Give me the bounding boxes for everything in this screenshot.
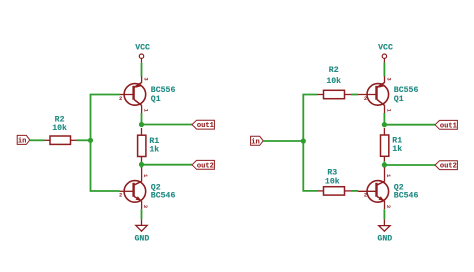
svg-text:GND: GND [135,235,150,244]
label BC556 Q1 (right) [394,86,419,104]
global label out1 (left) [192,120,214,130]
ground symbol GND (right) [377,219,392,243]
wire vertical rail down to Q2 base (left) [91,140,120,191]
label Q2 BC546 (right) [394,183,419,200]
svg-text:R2: R2 [55,116,65,125]
wire in label to junction (right) [263,140,303,142]
svg-text:10k: 10k [326,76,341,86]
wire Q2 emitter to GND (right) [383,209,385,219]
label Q2 BC546 (left) [151,183,176,200]
resistor R1 1k (left) [138,128,160,162]
svg-text:1: 1 [385,109,392,113]
svg-text:GND: GND [377,234,392,243]
junction node out2 (left) [139,162,144,167]
wire junction to out1 label (left) [142,124,193,126]
junction node out2 (right) [382,162,387,167]
wire out2 junction to Q2 collector (left) [141,165,143,169]
ground symbol GND (left) [135,219,150,243]
wire R2 to junction (left) [77,139,91,141]
svg-text:BC546: BC546 [394,191,419,200]
svg-text:Q1: Q1 [151,95,161,104]
svg-text:1: 1 [142,109,149,113]
svg-text:1k: 1k [392,144,402,154]
resistor R2 10k (left) [45,116,77,145]
label BC556 Q1 (left) [151,86,176,104]
svg-text:R2: R2 [329,66,339,75]
wire rail down to R3 row (right) [303,141,317,191]
svg-text:VCC: VCC [378,43,393,52]
wire junction to out1 label (right) [384,124,435,126]
svg-text:3: 3 [142,205,149,209]
svg-text:R3: R3 [327,169,337,178]
junction node out1 (left) [139,122,144,127]
wire rail up to R2 row (right) [303,95,317,142]
svg-text:out1: out1 [440,122,457,130]
wire R1 to out2 junction (right) [383,161,385,165]
svg-text:Q1: Q1 [394,95,404,104]
svg-text:3: 3 [142,77,149,81]
wire Q1 base to vertical rail (left) [91,95,120,141]
resistor R2 10k (right) [317,66,351,99]
junction node in rail (right) [301,138,306,143]
svg-text:VCC: VCC [135,43,150,52]
svg-text:out1: out1 [197,122,214,130]
wire Q1 collector to out1 junction (left) [141,113,143,125]
wire in label to R2 (left) [30,139,45,141]
global label out2 (left) [192,160,214,170]
transistor Q2 BC546 NPN (left) [119,168,149,210]
svg-text:2: 2 [119,95,122,102]
global label out1 (right) [435,120,457,130]
wire junction to out2 label (left) [142,164,193,166]
svg-text:1: 1 [142,174,149,178]
resistor R3 10k (right) [317,169,351,195]
power symbol VCC (right) [378,43,393,62]
svg-text:2: 2 [119,191,122,198]
wire R2 to Q1 base (right) [351,94,358,96]
wire R1 to out2 junction (left) [141,162,143,165]
svg-text:2: 2 [364,95,367,102]
junction in/R2 rail (left) [88,138,93,143]
wire Q2 emitter to GND (left) [141,209,143,219]
svg-text:10k: 10k [325,176,340,186]
wire junction to out2 label (right) [384,164,435,166]
junction node out1 (right) [382,122,387,127]
transistor Q1 BC556 PNP (left) [119,76,149,113]
wire VCC to Q1 emitter (right) [383,63,385,77]
wire out2 junction to Q2 collector (right) [383,165,385,168]
global label in (right) [251,136,264,146]
svg-text:BC546: BC546 [151,191,176,200]
global label out2 (right) [435,161,457,171]
transistor Q2 BC546 NPN (right) [358,168,392,210]
svg-text:10k: 10k [52,123,67,133]
svg-text:BC556: BC556 [151,86,176,95]
svg-text:BC556: BC556 [394,86,419,95]
svg-text:out2: out2 [440,163,457,171]
svg-text:out2: out2 [197,162,214,170]
svg-text:in: in [18,138,27,146]
svg-text:3: 3 [385,205,392,209]
wire Q1 collector to out1 junction (right) [383,113,385,125]
wire VCC to Q1 emitter (left) [141,63,143,77]
svg-text:3: 3 [385,77,392,81]
power symbol VCC (left) [135,43,150,62]
resistor R1 1k (right) [381,128,403,161]
svg-text:1: 1 [385,174,392,178]
transistor Q1 BC556 PNP (right) [358,76,392,113]
global label in (left) [17,135,30,145]
svg-text:2: 2 [364,191,367,198]
wire R3 to Q2 base (right) [351,190,358,192]
svg-text:1k: 1k [149,144,159,154]
svg-text:in: in [251,138,260,146]
